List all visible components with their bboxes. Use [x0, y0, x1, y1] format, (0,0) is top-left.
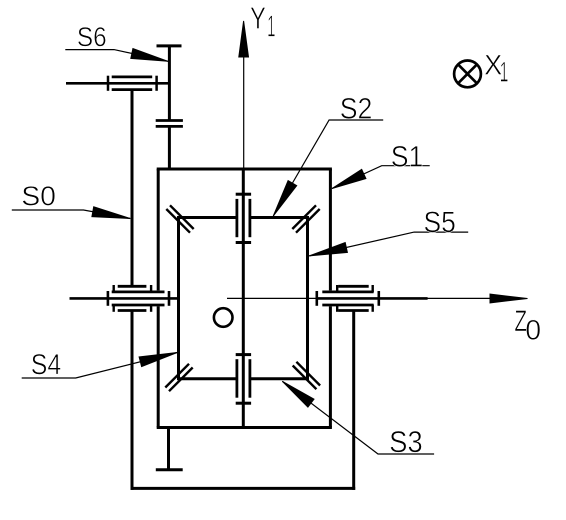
X1 axis label subscript 1: [501, 62, 508, 82]
Z0 axis label Z: [515, 311, 527, 332]
label S4 text: [32, 354, 61, 375]
shaft S5 stub out of housing: [317, 297, 428, 300]
label S5 text: [425, 211, 455, 232]
Y1 axis line: [243, 57, 245, 170]
label S2 leader: [273, 120, 383, 216]
label S6 leader: [65, 50, 168, 62]
label S0 text: [23, 186, 55, 205]
bearing bottom-right: [293, 362, 320, 389]
label S2 arrow: [273, 181, 296, 216]
X1 axis symbol (into page): circle with X: [454, 61, 481, 88]
shaft S3 vertical (right): [352, 311, 355, 490]
right gear coupling: shaft shoulder ticks: [315, 291, 318, 306]
bearing top-left: [166, 205, 193, 232]
Z0 axis label subscript 0: [526, 320, 540, 340]
label S1 text: [392, 146, 422, 167]
label S2 text: [341, 98, 371, 119]
housing S1 bottom wall: [157, 426, 332, 429]
label S6 text: [78, 27, 106, 46]
right gear coupling: hub end ticks: [337, 285, 373, 312]
housing S1 left wall (gap at coupling): [157, 169, 160, 290]
bearing top-right: [292, 205, 319, 232]
Y1 axis label Y: [251, 7, 266, 28]
coupling on S6 horizontal shaft: sleeve bars: [112, 76, 153, 79]
Z0 axis arrowhead: [490, 294, 528, 303]
S6 horizontal shaft: [66, 82, 169, 85]
gear on S2 shaft (top): caps: [236, 193, 251, 196]
housing S1 right wall (gap at coupling): [329, 169, 332, 290]
label S4 arrow: [139, 353, 177, 367]
label S3 leader: [282, 381, 434, 454]
shaft S5 (right vertical): [306, 216, 309, 380]
center vertical shaft: [242, 169, 245, 428]
bottom stub shaft with T-bar: [167, 428, 170, 471]
gear on S2 shaft (top): side bars: [235, 199, 238, 237]
right gear coupling: hub bars: [338, 285, 368, 288]
shaft S4 (left vertical): [177, 216, 180, 380]
label S0 leader: [12, 210, 130, 219]
left horizontal shaft segment: [70, 297, 179, 300]
housing S1 top wall: [157, 168, 332, 171]
label S4 leader: [22, 353, 178, 379]
Y1 axis arrowhead: [239, 21, 249, 57]
left gear coupling: hub end ticks: [114, 285, 151, 312]
shaft S0 vertical (left), interrupted by coupling: [131, 90, 134, 287]
label S5 leader: [309, 232, 468, 256]
label S6 arrow: [131, 49, 168, 62]
label S1 arrow: [332, 169, 366, 188]
left gear coupling: hub bars: [118, 285, 147, 288]
bottom return shaft: [131, 487, 356, 490]
left gear coupling: shaft shoulder ticks: [107, 291, 110, 306]
gear on bottom shaft: side bars: [235, 359, 238, 398]
shaft S6 top T-bar: [157, 44, 182, 47]
Z0 axis line: [227, 297, 492, 299]
shaft S2 (top horizontal, gap at gear): [179, 216, 237, 219]
label S3 text: [390, 431, 421, 452]
label S3 arrow: [282, 381, 314, 407]
bottom horizontal shaft (gap at gear): [179, 377, 237, 380]
label S1 leader: [332, 166, 430, 189]
shaft S6 vertical (gap at gear bars): [168, 46, 171, 121]
right gear coupling: sleeve bars: [322, 290, 373, 293]
X1 axis label X: [485, 55, 502, 75]
origin marker O: [214, 308, 233, 327]
label S5 arrow: [309, 243, 347, 256]
gear on bottom shaft: caps: [236, 353, 251, 356]
label S0 arrow: [92, 207, 130, 219]
left gear coupling: sleeve bars: [112, 290, 165, 293]
gear pair bars on S6 vertical shaft: [156, 119, 183, 122]
Y1 axis label subscript 1: [268, 16, 275, 37]
bearing bottom-left: [165, 364, 192, 391]
coupling on S6 shaft: end ticks: [107, 76, 110, 91]
